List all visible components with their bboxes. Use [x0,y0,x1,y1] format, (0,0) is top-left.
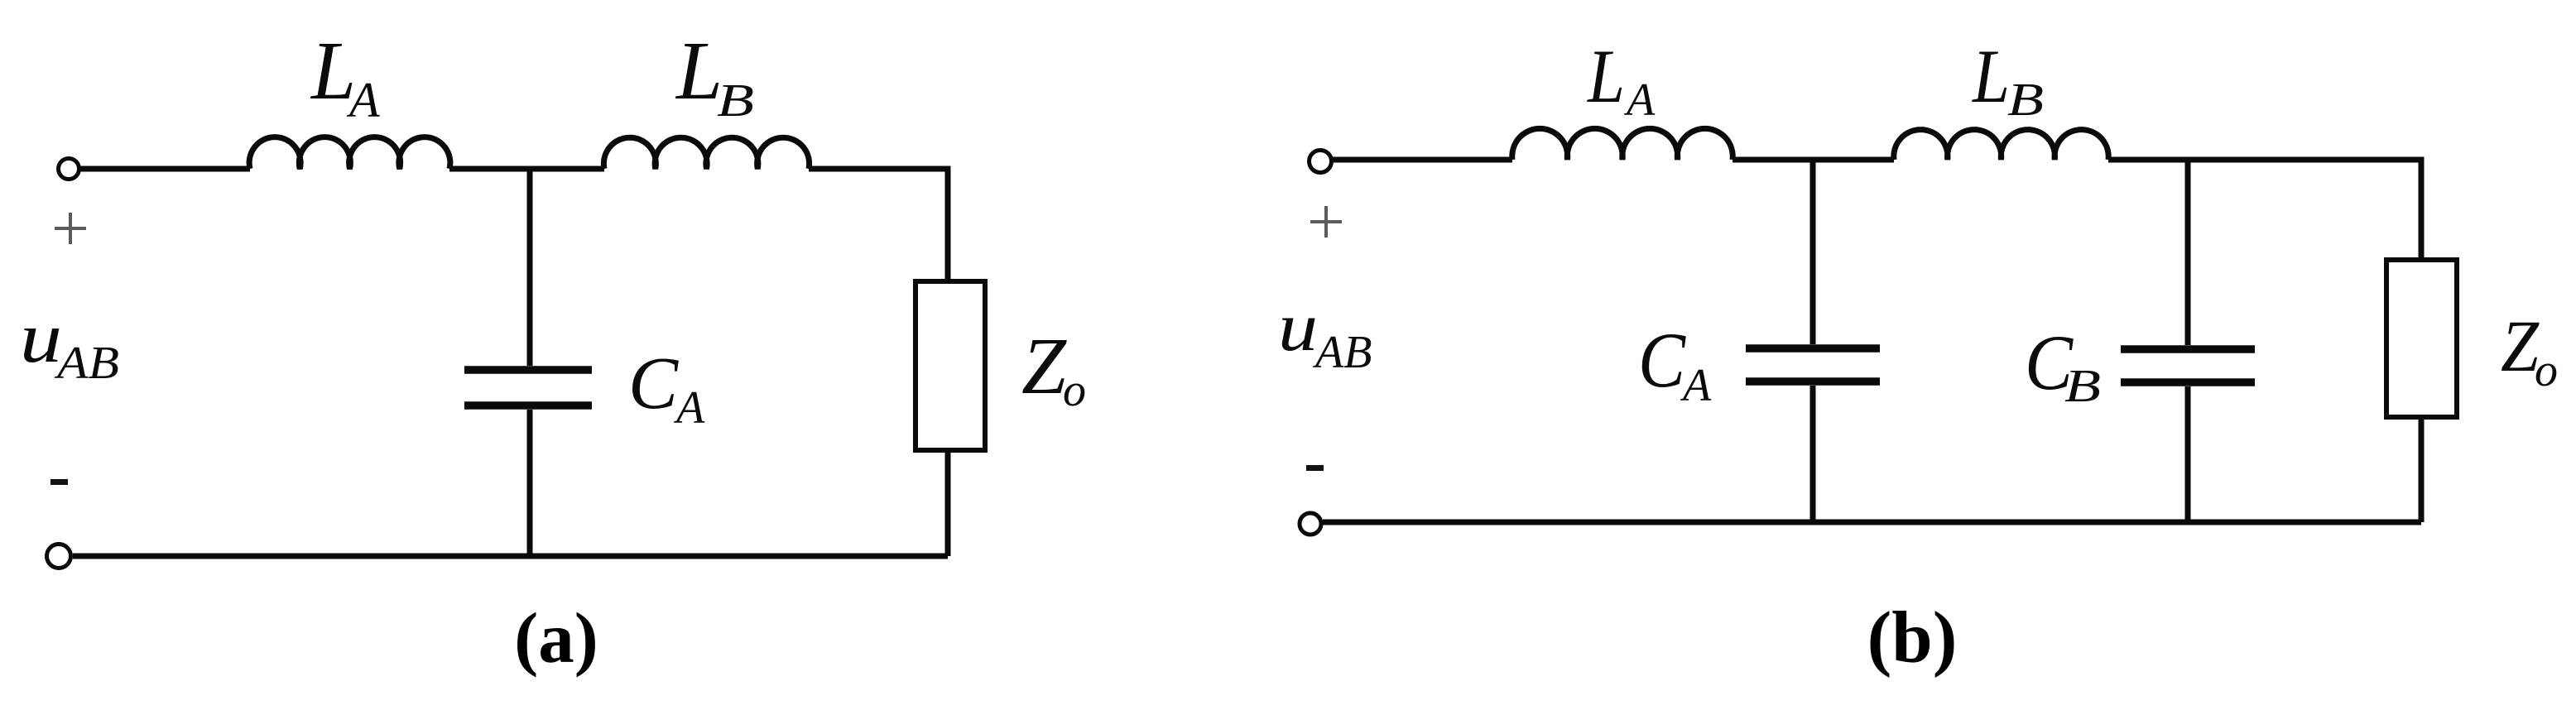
svg-text:A: A [1680,360,1712,411]
svg-text:A: A [1623,74,1656,126]
svg-text:Z: Z [1021,322,1067,411]
svg-text:u: u [1278,289,1318,366]
svg-text:o: o [1063,365,1086,416]
svg-text:AB: AB [54,338,119,389]
svg-text:C: C [628,343,679,425]
svg-text:B: B [717,75,754,127]
svg-text:(b): (b) [1867,597,1958,679]
svg-text:o: o [2535,345,2558,396]
svg-text:C: C [1638,316,1686,404]
svg-text:B: B [2064,361,2101,412]
svg-text:A: A [346,73,380,127]
svg-text:(a): (a) [514,597,598,678]
svg-text:AB: AB [1312,327,1372,378]
svg-text:L: L [1586,34,1625,118]
svg-text:B: B [2007,74,2044,126]
svg-text:A: A [673,382,705,434]
svg-text:L: L [1971,34,2010,118]
svg-text:L: L [675,24,723,117]
svg-text:u: u [20,297,62,377]
